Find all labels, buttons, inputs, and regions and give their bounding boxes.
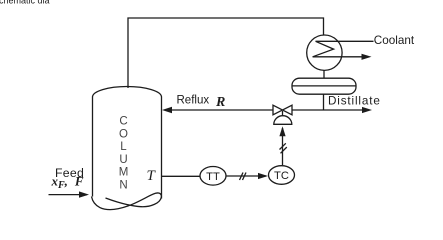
distillate arrow (362, 107, 372, 113)
svg-text:O: O (119, 128, 128, 140)
reflux line with arrow into column (162, 107, 273, 113)
svg-text:TC: TC (274, 170, 289, 182)
coolant outlet arrow (313, 54, 372, 60)
svg-text:R: R (215, 95, 225, 110)
reflux drum (292, 78, 356, 94)
cropped caption text at top edge (0, 0, 50, 6)
svg-text:TT: TT (206, 171, 220, 183)
transmitter TT (200, 167, 226, 186)
condenser to drum pipe (323, 70, 325, 78)
feed arrow into column (49, 191, 90, 197)
svg-text:T: T (147, 168, 157, 184)
valve actuator stem (282, 111, 284, 116)
svg-text:Reflux: Reflux (177, 94, 210, 106)
column vessel body (93, 87, 162, 199)
svg-text:Distillate: Distillate (328, 95, 381, 108)
controller TC (269, 166, 295, 185)
signal line TT to TC (226, 173, 268, 179)
svg-text:C: C (119, 116, 127, 128)
condenser coil zigzag (313, 41, 334, 57)
drum outlet pipe (323, 94, 325, 110)
column bottom loop (92, 193, 162, 210)
svg-text:M: M (119, 167, 129, 179)
signal line TC to valve (279, 126, 285, 165)
column label COLUMN (119, 116, 129, 192)
control valve bowtie (273, 105, 292, 115)
temperature tap line column to TT (162, 175, 201, 177)
condenser circle (307, 35, 342, 70)
hash marks on TC-valve signal (280, 143, 287, 153)
valve to distillate junction line (292, 109, 363, 111)
coolant inlet line (316, 40, 374, 42)
svg-text:Coolant: Coolant (374, 34, 415, 47)
svg-text:xF,F: xF,F (51, 174, 84, 192)
hash marks on TT-TC signal (240, 173, 247, 181)
overhead vapour line (128, 18, 324, 88)
svg-text:U: U (119, 154, 127, 166)
svg-text:N: N (119, 180, 127, 192)
valve actuator diaphragm dome (274, 116, 292, 125)
svg-text:L: L (120, 141, 127, 153)
svg-text:chematic dia: chematic dia (0, 0, 50, 6)
